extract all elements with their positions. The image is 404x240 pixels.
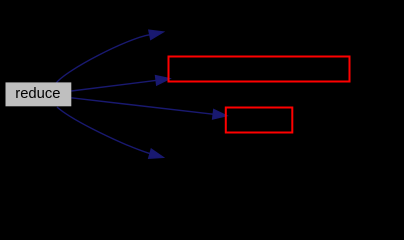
arrowhead small box edge	[212, 109, 227, 119]
edge reduce->bottom node (wire)	[57, 107, 150, 154]
arrowhead top edge	[149, 30, 164, 40]
arrowhead big box edge	[155, 75, 170, 85]
node big red box (truncated call target)	[169, 57, 350, 82]
svg-text:reduce: reduce	[15, 86, 60, 102]
edge reduce->small red node (wire)	[71, 98, 213, 114]
node small red box (truncated call target)	[226, 108, 292, 133]
edge reduce->top node (wire)	[56, 35, 150, 83]
edge reduce->big red node (wire)	[71, 80, 156, 91]
arrowhead bottom edge	[148, 149, 163, 159]
node reduce (gray filled box)	[6, 82, 72, 106]
